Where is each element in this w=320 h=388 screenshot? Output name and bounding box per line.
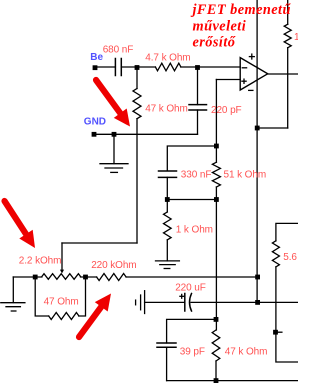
resistor R7 47 k Ohm bottom: [212, 330, 220, 361]
resistor R8 47 Ohm loop: [35, 277, 49, 316]
svg-text:5.6: 5.6: [283, 252, 297, 263]
wire non-inverting column upper: [215, 80, 217, 163]
ground symbol B: [156, 261, 180, 269]
wire plus input: [216, 79, 240, 81]
wire left ground drop: [12, 277, 14, 303]
capacitor C3 330 nF: [159, 171, 177, 177]
svg-text:1: 1: [294, 32, 298, 43]
svg-text:1 k Ohm: 1 k Ohm: [176, 225, 213, 236]
node y302 output junction: [255, 300, 260, 305]
wire node B to op-amp: [181, 66, 240, 68]
node GND terminal: [92, 132, 97, 137]
svg-text:39 pF: 39 pF: [180, 346, 205, 357]
svg-text:jFET bemenetű: jFET bemenetű: [191, 2, 292, 18]
wire wiper: [61, 243, 63, 270]
node stub right: [276, 331, 282, 333]
node ground junction: [112, 132, 117, 137]
wire bottom rail y277: [13, 276, 42, 278]
wire y302 right: [191, 301, 298, 303]
wire 330nF bottom: [166, 177, 168, 199]
wire node A down: [136, 67, 138, 89]
svg-text:Be: Be: [90, 52, 103, 63]
wire right column lower: [287, 48, 289, 128]
svg-text:4.7 k Ohm: 4.7 k Ohm: [145, 53, 190, 64]
wire connector output loop: [257, 127, 288, 129]
red arrow 2: [5, 201, 28, 237]
op-amp plus power label: [249, 54, 254, 59]
wire junction row: [167, 199, 216, 201]
resistor R9 5.6k: [272, 241, 279, 267]
svg-text:műveleti: műveleti: [193, 19, 247, 35]
wire feedback horizontal: [62, 242, 137, 244]
svg-text:GND: GND: [84, 117, 106, 128]
svg-text:680 nF: 680 nF: [103, 44, 134, 55]
resistor R6 220 kOhm: [97, 274, 127, 281]
ground symbol D rotated: [136, 291, 145, 314]
svg-text:220 kOhm: 220 kOhm: [91, 260, 136, 271]
node 330nF row junction: [214, 144, 219, 149]
red arrow 1: [96, 80, 122, 116]
wire 39pF bottom: [166, 347, 168, 380]
wire column mid: [215, 187, 217, 330]
svg-text:51 k Ohm: 51 k Ohm: [224, 170, 267, 181]
node output loop junction: [255, 126, 260, 131]
wire top input rail: [95, 66, 115, 68]
node 39pF row junction: [214, 317, 219, 322]
plus mark 220uF: [180, 294, 184, 298]
wire y302 left: [145, 301, 185, 303]
resistor R5 top right: [284, 24, 291, 47]
wire supply column through op-amp: [256, 0, 258, 302]
svg-text:47 k Ohm: 47 k Ohm: [145, 103, 188, 114]
wire 330nF top row: [167, 146, 216, 170]
svg-text:2.2 kOhm: 2.2 kOhm: [19, 256, 62, 267]
wire rail to output column: [126, 276, 258, 278]
wire bootstrap column: [136, 119, 138, 243]
potentiometer P1 2.2 kOhm: [42, 274, 81, 280]
node right stub junction: [273, 330, 278, 335]
op-amp U1: [240, 58, 268, 90]
wire bottom rail y380: [167, 380, 298, 382]
wire output: [268, 73, 298, 75]
node row199 right junction: [214, 197, 219, 202]
svg-text:330 nF: 330 nF: [181, 170, 212, 181]
wiper arrow: [60, 270, 64, 274]
wire node B down: [197, 67, 199, 105]
capacitor C1 680 nF: [115, 59, 121, 76]
wire rail middle: [81, 276, 97, 278]
capacitor C5 39 pF: [157, 343, 176, 347]
node Be terminal: [93, 65, 98, 70]
svg-text:47 k Ohm: 47 k Ohm: [225, 346, 268, 357]
svg-text:220 uF: 220 uF: [175, 283, 206, 294]
resistor R1 4.7 k Ohm: [155, 63, 181, 71]
ground symbol C: [1, 303, 25, 311]
wire right column top: [287, 0, 289, 24]
wire right edge circuit: [276, 223, 298, 240]
svg-text:47 Ohm: 47 Ohm: [44, 296, 79, 307]
ground symbol A: [100, 164, 128, 173]
svg-text:erősítő: erősítő: [193, 34, 236, 50]
wire cap to node A: [121, 66, 155, 68]
capacitor C4 220 uF electrolytic: [185, 294, 192, 312]
node row199 left junction: [165, 197, 170, 202]
capacitor C2 220 pF: [189, 105, 207, 110]
node B junction: [195, 65, 200, 70]
resistor R2 47 k Ohm: [133, 89, 141, 119]
wire 1k top lead: [166, 200, 168, 213]
node pot right junction: [83, 275, 88, 280]
node rail output junction: [255, 275, 260, 280]
wire column bottom: [215, 361, 217, 381]
op-amp minus input label: [242, 67, 246, 69]
red arrow 3: [79, 304, 103, 337]
wire GND rail: [94, 133, 198, 135]
wire 39pF top row: [167, 319, 216, 343]
svg-text:220 pF: 220 pF: [211, 105, 242, 116]
wire right circuit lower: [276, 267, 298, 362]
resistor R3 51 k Ohm: [212, 162, 220, 187]
wire ground stub: [113, 134, 115, 163]
node A junction: [135, 65, 140, 70]
op-amp minus power label: [249, 89, 253, 91]
node bottom rail junction: [214, 378, 219, 383]
op-amp plus input label: [242, 79, 246, 83]
node pot left junction: [33, 275, 38, 280]
wire 220pF to GND rail: [197, 110, 199, 134]
wire 1k to ground: [166, 240, 168, 261]
resistor R4 1 k Ohm: [164, 212, 172, 240]
